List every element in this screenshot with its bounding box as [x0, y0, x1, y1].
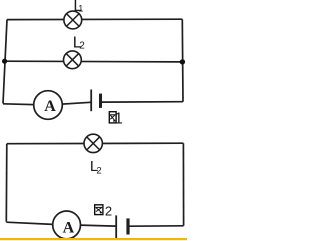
label 图1: hand-drawn 图 glyph	[109, 112, 116, 123]
svg-text:A: A	[44, 98, 56, 115]
node junction dot right	[180, 59, 185, 64]
battery B1 short thick plate (circuit 1)	[99, 94, 102, 108]
wire right side of circuit 2	[182, 143, 184, 226]
wire top of circuit 1 (L1 branch)	[7, 18, 182, 20]
decorative yellow rule at bottom	[0, 238, 187, 240]
svg-text:1: 1	[114, 111, 123, 128]
wire top of circuit 2	[7, 142, 184, 145]
wire right side of circuit 1	[181, 19, 184, 102]
lamp L2 symbol (circuit 1)	[64, 51, 82, 69]
ammeter A2 (circuit 2)	[53, 211, 81, 239]
svg-text:2: 2	[96, 166, 101, 177]
wire bottom of circuit 2 (right of battery)	[129, 225, 184, 227]
lamp L2 symbol (circuit 2)	[84, 134, 102, 152]
battery B2 long plate (circuit 2)	[115, 215, 117, 238]
wire left side of circuit 1	[3, 20, 7, 104]
ammeter A1 (circuit 1)	[34, 91, 63, 120]
svg-text:2: 2	[105, 203, 112, 218]
svg-text:2: 2	[79, 41, 85, 52]
wire bottom of circuit 1 (right of battery)	[102, 101, 184, 103]
lamp L1 symbol	[64, 11, 82, 29]
wire left side of circuit 2	[5, 144, 8, 222]
battery B1 long plate (circuit 1)	[90, 90, 92, 112]
label L1	[73, 0, 83, 15]
wire bottom of circuit 1 (left of battery)	[3, 102, 91, 105]
svg-text:A: A	[63, 220, 75, 237]
wire middle branch of circuit 1 (L2 branch)	[5, 60, 183, 63]
wire bottom of circuit 2 (left of battery)	[6, 222, 115, 226]
node junction dot left	[2, 59, 7, 64]
svg-text:1: 1	[78, 3, 83, 13]
label 图2: hand-drawn 图 glyph	[95, 205, 103, 215]
label L2 (circuit 1)	[73, 35, 85, 52]
label L2 (circuit 2)	[90, 158, 102, 177]
battery B2 short thick plate (circuit 2)	[126, 218, 129, 234]
